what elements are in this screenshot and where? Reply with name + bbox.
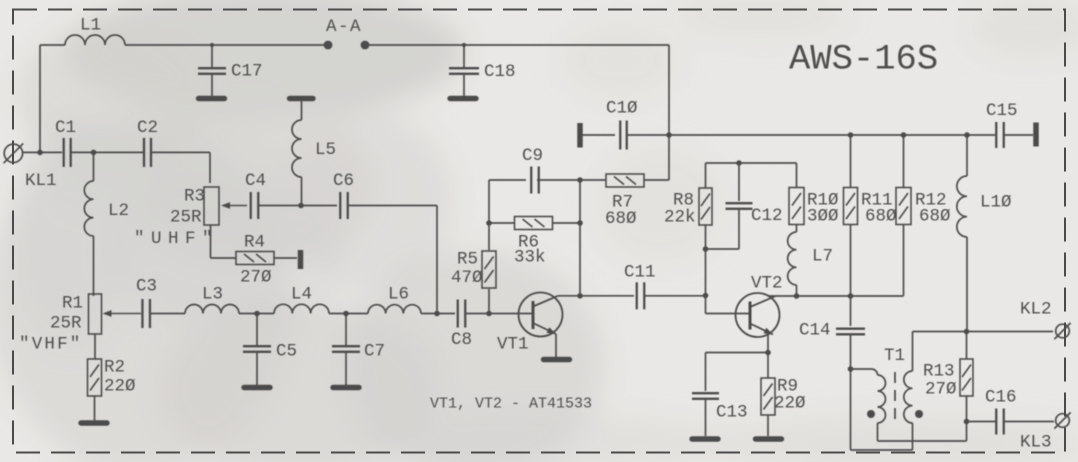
- node A-A: [324, 41, 333, 50]
- wire: [903, 224, 905, 296]
- wire: [152, 151, 211, 153]
- capacitor C10: [619, 121, 621, 150]
- wire: [705, 296, 707, 314]
- wire: [767, 335, 769, 379]
- wire: [369, 44, 669, 46]
- resistor R13 270: [966, 332, 968, 360]
- ground: [692, 436, 718, 441]
- wire: [488, 289, 490, 314]
- wire: [644, 295, 706, 297]
- potentiometer R3 25R: [204, 187, 219, 225]
- terminal KL2: [1056, 324, 1070, 338]
- wire: [23, 151, 62, 153]
- resistor R11 680: [850, 135, 852, 188]
- chassis bar: [298, 250, 304, 269]
- wire: [668, 45, 670, 180]
- potentiometer R1 25R: [89, 294, 102, 334]
- wire: [274, 257, 297, 259]
- resistor R9 220: [761, 378, 775, 415]
- ground: [544, 357, 570, 362]
- wire: [489, 179, 526, 181]
- wire: [913, 331, 1054, 333]
- node: [848, 132, 854, 138]
- capacitor C13: [692, 392, 719, 394]
- wire: [537, 179, 580, 181]
- chassis bar: [577, 123, 583, 148]
- resistor R2 220: [88, 359, 102, 396]
- wire: [71, 151, 143, 153]
- ground: [81, 420, 107, 425]
- capacitor C15: [995, 122, 997, 148]
- capacitor C5: [256, 314, 258, 346]
- wire: [967, 421, 997, 423]
- capacitor C14: [836, 328, 865, 330]
- wire: [421, 313, 455, 315]
- ground: [450, 96, 476, 101]
- transistor VT2: [736, 293, 780, 337]
- capacitor C11: [636, 282, 638, 309]
- wiper arrow: [108, 313, 142, 315]
- wire: [555, 334, 557, 357]
- wire: [210, 225, 212, 258]
- wire: [125, 44, 324, 46]
- wire: [259, 205, 338, 207]
- capacitor C12: [738, 163, 740, 201]
- resistor R6 33k: [489, 222, 515, 224]
- inductor L5: [301, 101, 303, 120]
- transformer T1 secondary: [912, 332, 914, 372]
- terminal KL1: [4, 144, 22, 162]
- resistor R7 680: [580, 179, 606, 181]
- ground: [244, 385, 270, 390]
- transistor VT1: [519, 293, 563, 337]
- wire: [1004, 421, 1054, 423]
- polarity dot: [915, 410, 923, 418]
- wire: [347, 205, 437, 207]
- wiper arrow: [226, 205, 247, 207]
- wire: [769, 295, 904, 297]
- node: [666, 132, 672, 138]
- capacitor C7: [345, 314, 347, 346]
- capacitor C4: [250, 192, 252, 219]
- inductor L1: [65, 35, 125, 45]
- capacitor C16: [995, 409, 997, 435]
- resistor R10 300: [789, 188, 804, 225]
- inductor L7: [796, 224, 798, 232]
- transformer T1 primary: [851, 368, 872, 370]
- capacitor C6: [339, 192, 341, 219]
- wire: [239, 313, 274, 315]
- inductor L4: [274, 304, 329, 313]
- wire: [627, 134, 995, 136]
- terminal KL3: [1056, 414, 1070, 428]
- wire: [581, 134, 615, 136]
- inductor L3: [185, 305, 239, 314]
- wire: [558, 295, 634, 297]
- capacitor C9: [530, 167, 532, 194]
- inductor L6: [368, 305, 421, 314]
- inductor L10: [966, 135, 968, 176]
- wire: [40, 44, 65, 46]
- node: [901, 132, 907, 138]
- wire: [488, 180, 490, 250]
- capacitor C1: [63, 138, 65, 167]
- capacitor C8: [457, 300, 459, 328]
- wire: [465, 313, 532, 315]
- wire: [94, 334, 96, 359]
- resistor R4 270: [236, 252, 274, 265]
- T1 core: [894, 372, 896, 422]
- ground: [333, 385, 359, 390]
- wire: [150, 313, 185, 315]
- resistor R8 22k: [705, 163, 707, 188]
- wire: [329, 313, 368, 315]
- capacitor C18: [463, 45, 465, 67]
- resistor R5 470: [482, 251, 496, 288]
- wire: [706, 352, 769, 354]
- polarity dot: [867, 410, 875, 418]
- wire: [1004, 134, 1033, 136]
- capacitor C2: [143, 138, 145, 167]
- wire: [94, 396, 96, 421]
- chassis bar: [1033, 123, 1039, 147]
- capacitor C17: [211, 45, 213, 67]
- inductor L2: [93, 152, 95, 181]
- capacitor C3: [141, 299, 143, 328]
- resistor R12 680: [903, 135, 905, 188]
- ground: [199, 96, 225, 101]
- ground bar: [290, 96, 314, 101]
- node: [964, 132, 970, 138]
- wire: [579, 180, 581, 296]
- wire: [706, 162, 797, 164]
- ground: [756, 436, 782, 441]
